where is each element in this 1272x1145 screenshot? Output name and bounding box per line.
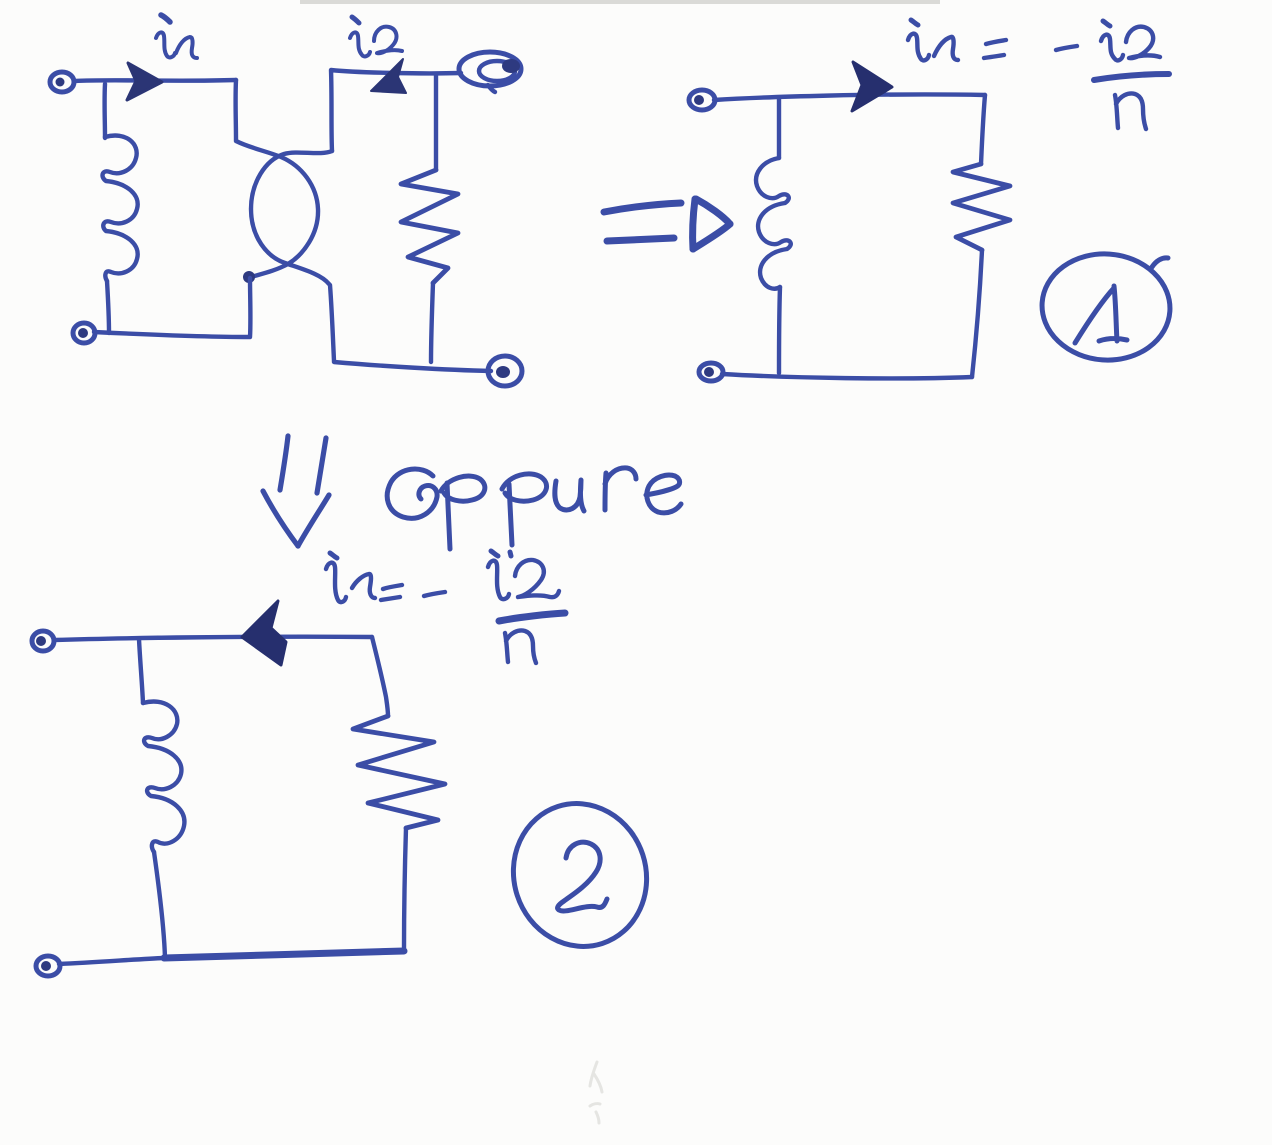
wire: top rail bbox=[54, 637, 372, 640]
terminal T1A top-left port 1 bbox=[50, 72, 74, 92]
inductor L1 (primary winding, bumps bow right) bbox=[103, 135, 138, 281]
resistor R (secondary load) top lead bbox=[434, 74, 438, 170]
resistor R zigzag bbox=[353, 716, 445, 828]
terminal T1 top-left bbox=[689, 90, 715, 110]
terminal T2 bottom-left bbox=[36, 956, 60, 976]
word "oppure" bbox=[387, 468, 681, 556]
transformer crossing wire A (top-left to bottom-left, bows right) bbox=[236, 141, 318, 277]
current arrow i1 (points left, bold scribble) bbox=[242, 601, 286, 665]
label i1 = - i2/n bbox=[908, 20, 1169, 129]
terminal T2B bottom-right port 2 bbox=[488, 356, 522, 386]
circled label 1 bbox=[1038, 250, 1173, 365]
resistor R zigzag bbox=[401, 170, 458, 283]
faint pencil smudge bottom centre bbox=[590, 1062, 602, 1123]
wire: bottom rail bbox=[722, 374, 972, 378]
wire: bottom rail left segment bbox=[59, 958, 164, 964]
current arrow i1 (points right, bold) bbox=[852, 62, 892, 111]
wire: bottom-left terminal to crossing bottom-left bbox=[94, 278, 250, 337]
current arrow i2 (points left) bbox=[371, 59, 406, 93]
junction dot at crossing lower-left bbox=[243, 271, 255, 283]
wire: primary left drop bbox=[102, 84, 107, 138]
wire: crossing top-right up and right to terminal bbox=[331, 70, 461, 151]
wire: bottom rail thick segment bbox=[164, 951, 404, 958]
resistor R bottom lead bbox=[972, 250, 982, 377]
terminal T2 bottom-left bbox=[699, 363, 723, 381]
terminal T1 top-left bbox=[32, 631, 54, 651]
terminal T2A bottom-left port 1 bbox=[73, 323, 95, 343]
wire: corner down into crossing bbox=[233, 80, 238, 140]
wire: left branch drop bbox=[777, 99, 781, 158]
inductor L (bumps bow right) bbox=[143, 701, 184, 852]
circled label 2 bbox=[495, 786, 665, 964]
wire: top rail corner slanting down to resistor bbox=[372, 637, 388, 716]
resistor R bottom lead bbox=[431, 283, 433, 362]
label i2 bbox=[350, 17, 402, 56]
wire: inductor bottom to bottom-left terminal bbox=[779, 287, 780, 373]
current arrow i1 (points right) bbox=[127, 63, 162, 100]
terminal T1B top-right port 2 (scribbled double loop) bbox=[459, 52, 521, 92]
resistor R zigzag bbox=[953, 164, 1010, 250]
resistor R bottom lead bbox=[404, 828, 406, 950]
label i1 bbox=[156, 15, 197, 58]
wire: left branch drop bbox=[139, 639, 143, 703]
wire: inductor bottom to bottom-left terminal bbox=[107, 281, 109, 333]
resistor R top lead bbox=[981, 95, 985, 164]
wire: top-left terminal to transformer primary top bbox=[75, 80, 236, 81]
transformer crossing wire B (top-right to bottom-right, bows left) bbox=[251, 151, 332, 284]
wire: crossing bottom-right down to bottom rail bbox=[330, 285, 334, 361]
wire: bottom rail to bottom-right terminal bbox=[334, 362, 491, 371]
wire: inductor bottom to bottom rail bbox=[154, 852, 165, 958]
wire: top rail bbox=[714, 94, 985, 100]
inductor L (bumps bow left) bbox=[756, 158, 791, 289]
